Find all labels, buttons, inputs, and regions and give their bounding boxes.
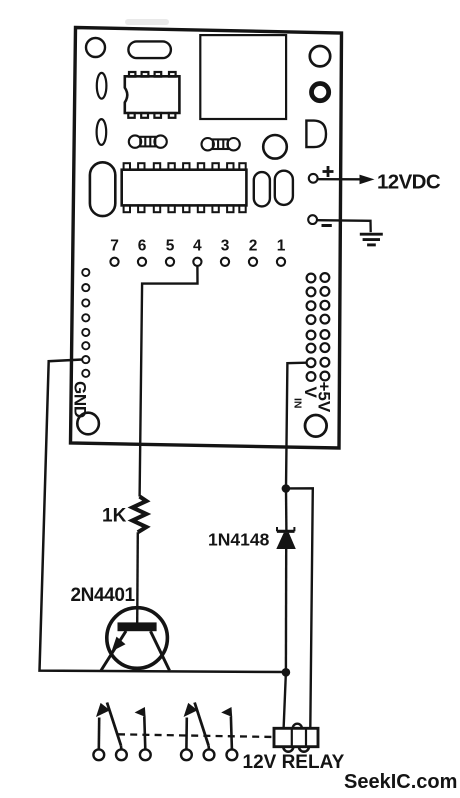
pad hole top-left bbox=[86, 38, 105, 57]
svg-text:12VDC: 12VDC bbox=[377, 171, 441, 194]
GND pad column bbox=[82, 269, 89, 377]
wire GND from board bbox=[40, 360, 286, 673]
svg-text:2N4401: 2N4401 bbox=[71, 585, 136, 606]
svg-text:2: 2 bbox=[249, 238, 258, 255]
wire pin4 down bbox=[140, 266, 198, 497]
mounting hole bottom-left bbox=[77, 413, 99, 435]
IC U1 8-pin DIP footprint bbox=[125, 72, 180, 118]
V_IN pad column bbox=[307, 274, 316, 381]
relay contacts group 1 bbox=[93, 703, 150, 761]
terminal + bbox=[309, 174, 318, 183]
mounting hole bottom-right bbox=[305, 415, 327, 437]
round pad mid bbox=[263, 135, 287, 159]
ground bbox=[360, 234, 383, 245]
svg-text:6: 6 bbox=[138, 238, 147, 255]
pin number labels 7..1 bbox=[110, 238, 286, 255]
resistor R1 1K bbox=[132, 497, 146, 533]
wire to relay coil left bbox=[284, 672, 286, 728]
wire resistor to transistor bbox=[136, 532, 139, 624]
svg-text:12V RELAY: 12V RELAY bbox=[243, 752, 345, 773]
wire relay branch right bbox=[286, 488, 313, 728]
svg-text:SeekIC.com: SeekIC.com bbox=[344, 771, 457, 793]
vertical pill pads right of U2 bbox=[254, 172, 270, 206]
svg-text:1N4148: 1N4148 bbox=[208, 530, 270, 550]
IC U2 18-pin DIP footprint bbox=[122, 163, 247, 212]
svg-text:1K: 1K bbox=[102, 506, 127, 527]
pin pads 7..1 bbox=[110, 258, 285, 266]
node junction bottom bbox=[282, 668, 291, 677]
wire minus to ground bbox=[317, 220, 371, 232]
terminal - bbox=[308, 215, 317, 224]
wire V_IN down bbox=[286, 363, 307, 489]
large square component bbox=[200, 35, 286, 119]
svg-text:V: V bbox=[301, 387, 320, 399]
resistor footprint right bbox=[202, 138, 240, 150]
scan smudge artifact bbox=[125, 19, 169, 25]
svg-text:4: 4 bbox=[193, 238, 202, 255]
svg-text:3: 3 bbox=[221, 238, 230, 255]
relay contacts group 2 bbox=[181, 703, 237, 761]
+5V pad column bbox=[321, 273, 330, 380]
pad pill top bbox=[128, 41, 171, 58]
oval pad left 1 bbox=[97, 73, 107, 99]
vertical pill pad left bbox=[90, 162, 115, 216]
capacitor ring pad bbox=[312, 84, 329, 101]
node junction top bbox=[282, 484, 291, 493]
wire 12VDC arrow bbox=[318, 178, 361, 181]
D-shaped pad bbox=[306, 121, 326, 148]
pad hole top-right bbox=[310, 46, 330, 66]
svg-text:5: 5 bbox=[166, 238, 175, 255]
svg-text:1: 1 bbox=[277, 238, 286, 255]
svg-text:7: 7 bbox=[110, 238, 119, 255]
PCB board outline bbox=[71, 28, 342, 449]
dashed linkage line bbox=[118, 734, 274, 737]
resistor footprint left bbox=[129, 135, 167, 147]
relay coil bbox=[274, 724, 318, 752]
oval pad left 2 bbox=[97, 119, 107, 145]
svg-text:IN: IN bbox=[292, 398, 304, 409]
